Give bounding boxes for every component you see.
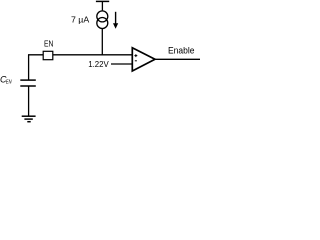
wire capacitor to ground [28,86,30,116]
svg-text:7 µA: 7 µA [71,15,90,25]
wire comparator output [155,58,200,60]
wire current source to EN node [101,29,103,55]
ground [22,116,36,122]
current source I1 (two overlapping circles) [97,11,108,29]
label CEN [0,75,12,86]
pin EN (box) [43,51,53,59]
svg-text:1.22V: 1.22V [88,59,109,69]
wire EN node down to capacitor [28,55,30,80]
capacitor CEN [20,80,36,86]
supply rail bar [96,0,109,2]
comparator U1 [132,48,155,71]
svg-text:EN: EN [44,38,53,48]
wire rail to current source [101,1,103,10]
current direction arrow [113,12,118,29]
wire 1.22V reference to comparator inverting input [111,63,133,65]
svg-text:EN: EN [6,80,12,86]
svg-text:Enable: Enable [168,46,195,56]
wire EN net horizontal [28,54,133,56]
